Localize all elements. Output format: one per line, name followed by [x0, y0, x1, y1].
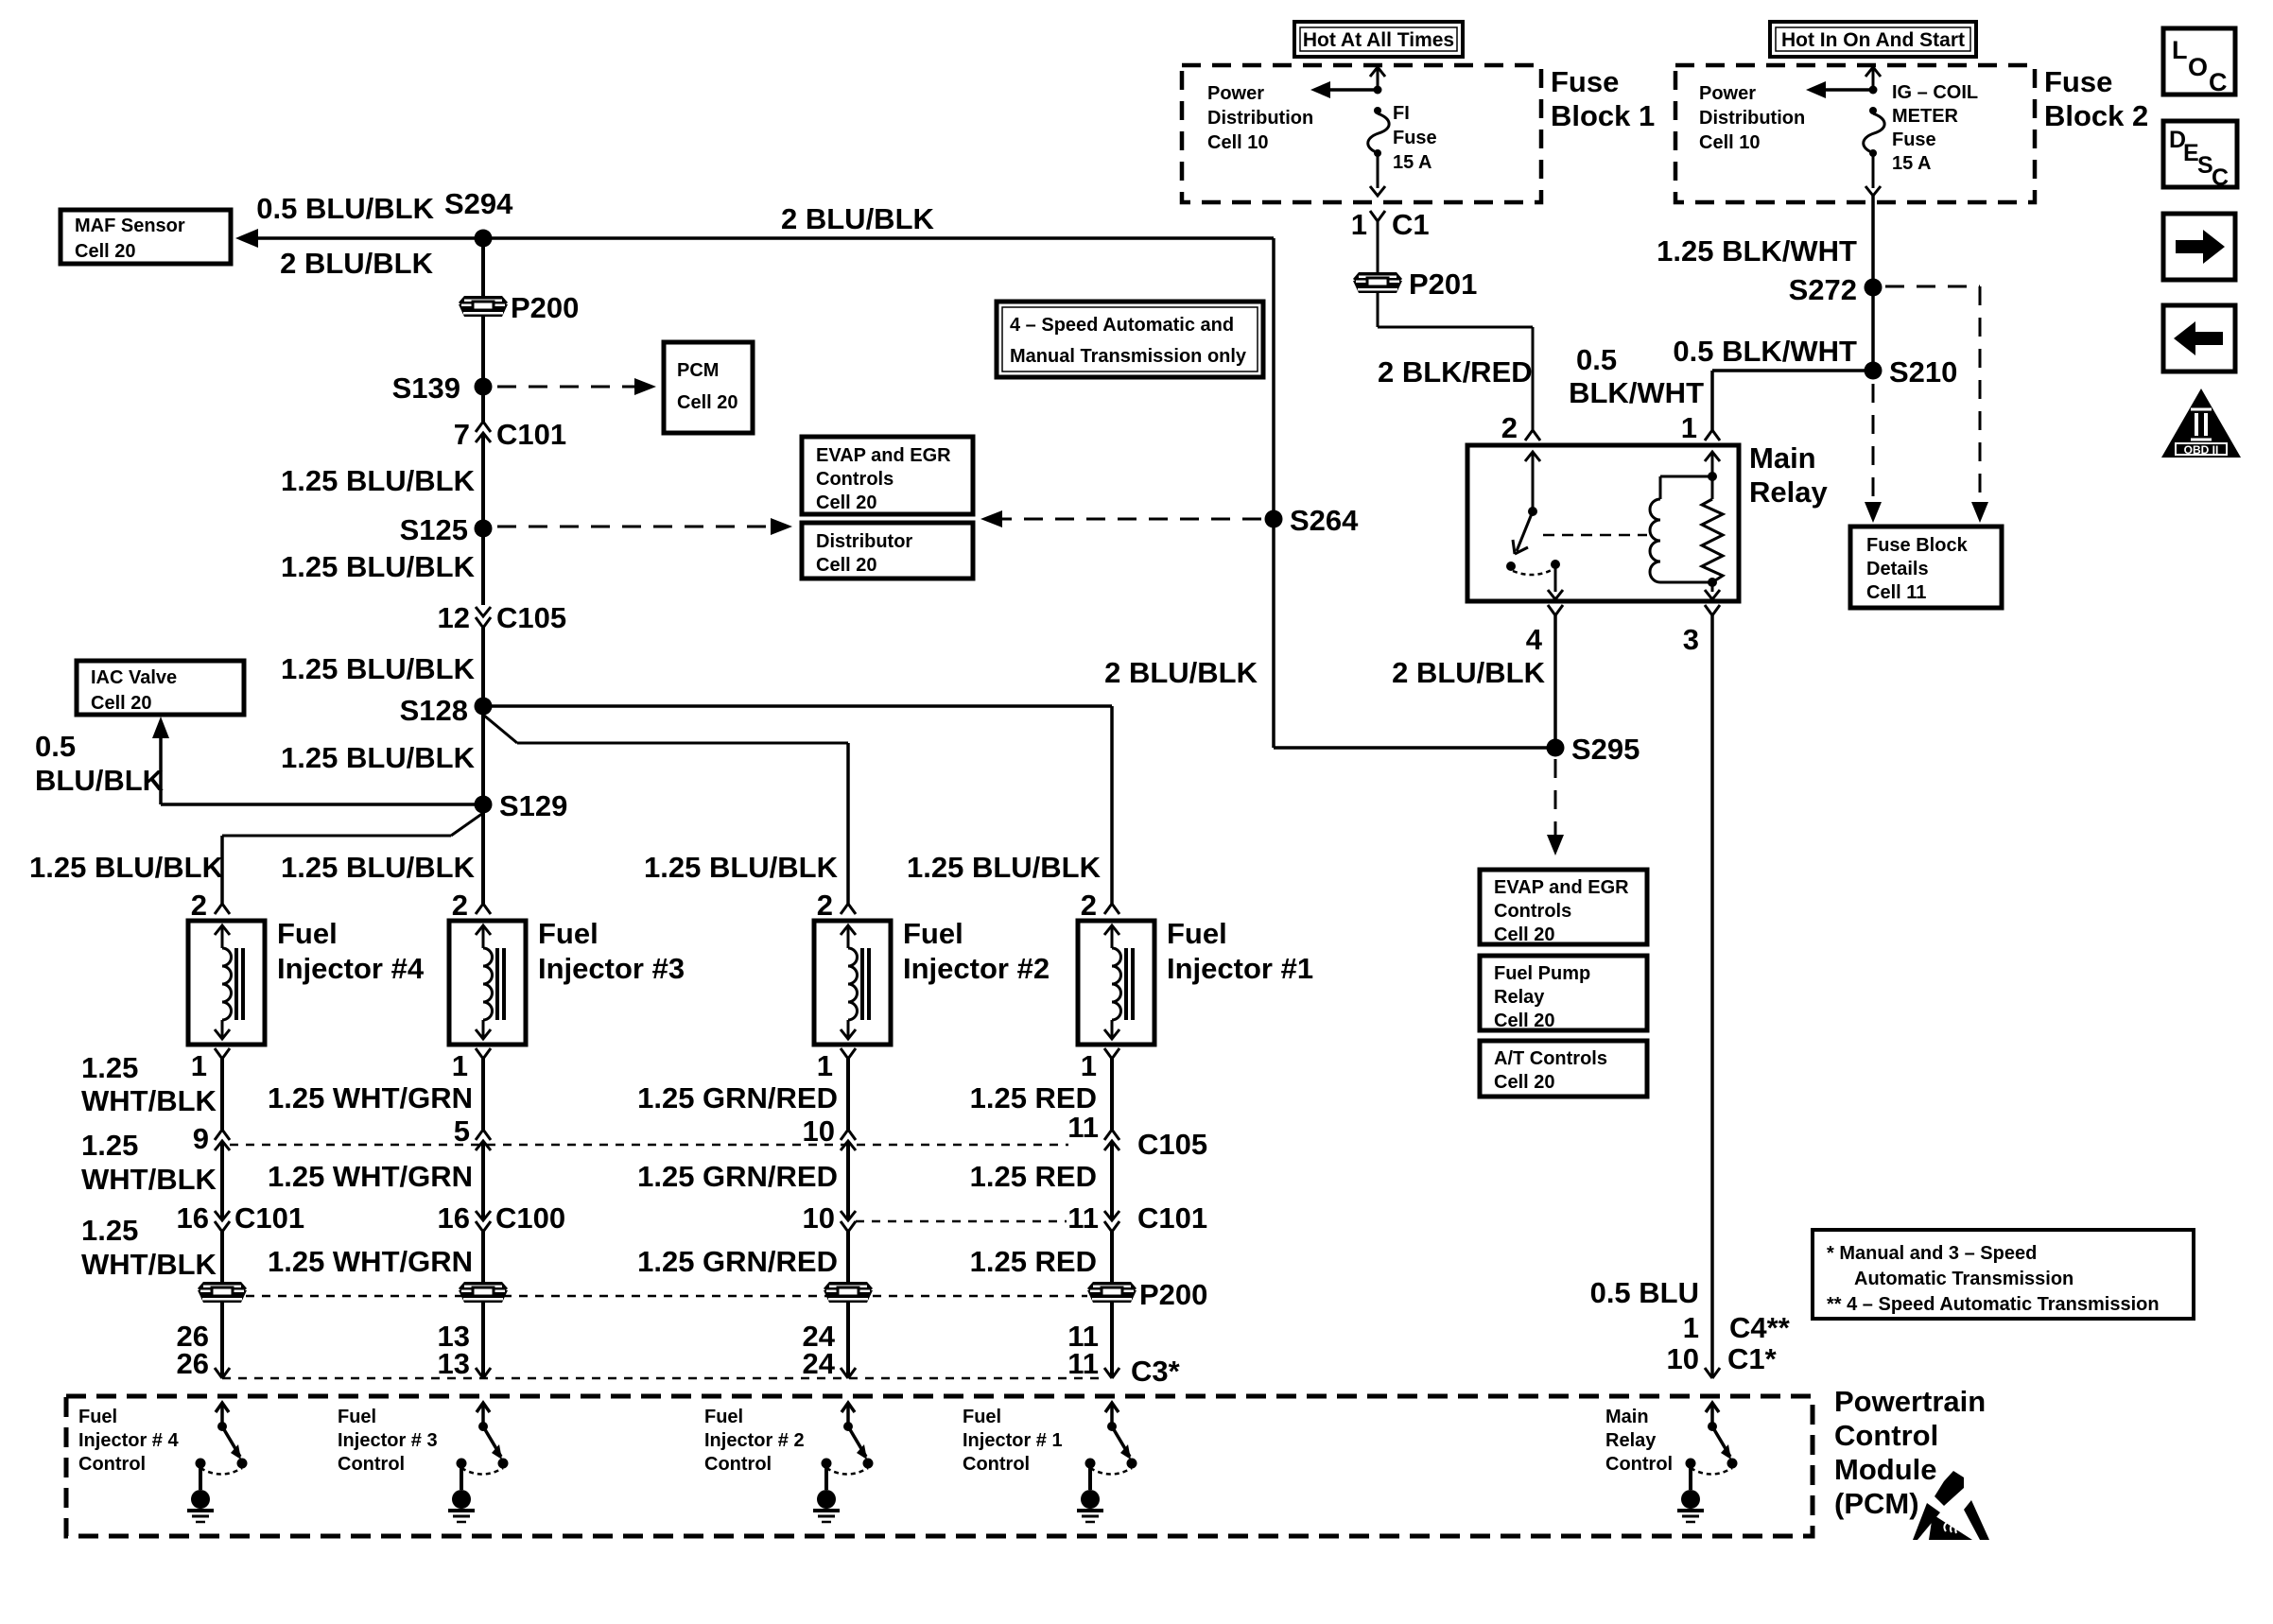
svg-text:Fuel: Fuel	[78, 1407, 117, 1427]
svg-text:Fuse: Fuse	[2044, 65, 2112, 98]
wire P201 to relay pin 2	[1378, 293, 1533, 430]
svg-text:16: 16	[177, 1201, 209, 1235]
svg-text:1.25 RED: 1.25 RED	[970, 1160, 1097, 1193]
svg-text:2 BLU/BLK: 2 BLU/BLK	[280, 247, 434, 280]
connector C101 pin 7	[454, 418, 566, 451]
svg-text:Cell 11: Cell 11	[1866, 582, 1926, 603]
svg-text:11: 11	[1067, 1201, 1099, 1235]
svg-text:Cell 20: Cell 20	[91, 693, 151, 714]
wire S294 down main column	[481, 238, 485, 422]
Powertrain Control Module label	[1834, 1385, 1986, 1520]
svg-text:WHT/BLK: WHT/BLK	[81, 1163, 217, 1196]
wire label 0.5 BLK/WHT two lines	[1569, 343, 1704, 409]
svg-text:Cell 20: Cell 20	[1494, 924, 1554, 945]
node S128	[400, 694, 493, 727]
svg-text:1.25 WHT/GRN: 1.25 WHT/GRN	[268, 1160, 473, 1193]
wire S129 diagonal to injector 4 column	[222, 813, 483, 904]
svg-text:1: 1	[1081, 1049, 1097, 1082]
relay top terminals pins 2 and 1	[1501, 411, 1720, 444]
svg-text:C105: C105	[1137, 1128, 1207, 1161]
wire S128 diagonal to injector 2 column	[483, 715, 848, 904]
svg-text:Distribution: Distribution	[1207, 108, 1313, 129]
svg-text:C101: C101	[1137, 1201, 1207, 1235]
PCM label fuel injector 4 control	[78, 1407, 179, 1475]
connector C1* pin 10	[1667, 1342, 1778, 1378]
connector P200 top	[459, 291, 579, 324]
svg-text:C1*: C1*	[1727, 1342, 1778, 1375]
svg-text:C1: C1	[1392, 208, 1430, 241]
Power Distribution Cell 10 label 2	[1699, 83, 1805, 153]
svg-text:10: 10	[803, 1201, 835, 1235]
svg-text:METER: METER	[1892, 106, 1959, 127]
svg-text:BLK/WHT: BLK/WHT	[1569, 376, 1704, 409]
svg-text:EVAP and EGR: EVAP and EGR	[1494, 877, 1629, 898]
svg-text:Cell 10: Cell 10	[1207, 132, 1268, 153]
svg-text:1.25 RED: 1.25 RED	[970, 1245, 1097, 1278]
svg-text:1: 1	[1683, 1311, 1699, 1344]
Power Distribution Cell 10 label 1	[1207, 83, 1313, 153]
svg-text:S129: S129	[499, 789, 567, 822]
svg-text:Relay: Relay	[1494, 987, 1545, 1008]
footnote box	[1813, 1230, 2194, 1319]
fuel injector 4	[188, 917, 425, 1045]
svg-text:P200: P200	[511, 291, 579, 324]
svg-text:0.5: 0.5	[1576, 343, 1617, 376]
svg-text:* Manual and 3 – Speed: * Manual and 3 – Speed	[1827, 1243, 2037, 1264]
svg-text:Control: Control	[78, 1454, 146, 1475]
svg-text:2 BLU/BLK: 2 BLU/BLK	[1392, 656, 1546, 689]
svg-text:1.25 BLU/BLK: 1.25 BLU/BLK	[644, 851, 839, 884]
dashed arrow S125 to EVAP/Distributor	[497, 518, 792, 535]
relay dashed link	[1543, 534, 1647, 537]
svg-text:Details: Details	[1866, 559, 1929, 579]
svg-text:Manual Transmission only: Manual Transmission only	[1010, 346, 1247, 367]
svg-text:C: C	[2212, 164, 2229, 191]
wires injectors down to C105 row	[222, 1059, 1112, 1130]
fuel injector 1	[1078, 917, 1313, 1045]
svg-text:Fuse: Fuse	[1892, 130, 1936, 150]
svg-text:O: O	[2188, 53, 2208, 81]
svg-text:11: 11	[1067, 1111, 1099, 1144]
fuel injector 3	[449, 917, 685, 1045]
connector row C3 dashed	[215, 1355, 1181, 1388]
svg-text:1.25 BLU/BLK: 1.25 BLU/BLK	[29, 851, 224, 884]
MAF Sensor box	[61, 210, 231, 264]
svg-text:Control: Control	[338, 1454, 405, 1475]
svg-text:1.25 BLU/BLK: 1.25 BLU/BLK	[281, 741, 476, 774]
svg-text:1.25: 1.25	[81, 1051, 138, 1084]
svg-text:15 A: 15 A	[1393, 152, 1432, 173]
relay coil-resistor connections	[1660, 472, 1717, 587]
svg-text:Power: Power	[1207, 83, 1264, 104]
svg-text:Controls: Controls	[816, 469, 894, 490]
svg-text:WHT/BLK: WHT/BLK	[81, 1084, 217, 1117]
dashed wire S210 to Fuse Block Details	[1865, 384, 1882, 523]
svg-text:Injector # 4: Injector # 4	[78, 1430, 179, 1451]
svg-text:Module: Module	[1834, 1453, 1937, 1486]
svg-text:10: 10	[1667, 1342, 1699, 1375]
svg-text:Cell 20: Cell 20	[75, 241, 135, 262]
svg-text:Control: Control	[704, 1454, 772, 1475]
svg-text:Main: Main	[1749, 441, 1816, 475]
svg-text:Powertrain: Powertrain	[1834, 1385, 1986, 1418]
svg-text:C101: C101	[496, 418, 566, 451]
Distributor box	[802, 523, 973, 579]
svg-text:1: 1	[1681, 411, 1697, 444]
svg-text:Fuel Pump: Fuel Pump	[1494, 963, 1590, 984]
svg-text:C: C	[2209, 68, 2228, 96]
svg-text:S125: S125	[400, 513, 468, 546]
svg-text:Control: Control	[1834, 1419, 1938, 1452]
svg-text:Controls: Controls	[1494, 901, 1571, 922]
svg-text:A/T Controls: A/T Controls	[1494, 1048, 1607, 1069]
svg-text:1.25: 1.25	[81, 1214, 138, 1247]
dashed arrow S295 down	[1547, 759, 1564, 855]
left arrow icon	[2163, 305, 2235, 371]
svg-text:Cell 20: Cell 20	[816, 492, 876, 513]
wire labels row2	[81, 1129, 1097, 1196]
svg-text:26: 26	[177, 1347, 209, 1380]
svg-text:1: 1	[191, 1049, 207, 1082]
Hot In On And Start box	[1770, 22, 1976, 57]
svg-text:24: 24	[803, 1347, 836, 1380]
svg-text:(PCM): (PCM)	[1834, 1487, 1919, 1520]
svg-text:BLU/BLK: BLU/BLK	[35, 764, 165, 797]
svg-text:P200: P200	[1139, 1278, 1207, 1311]
LOC icon	[2163, 28, 2235, 96]
svg-text:15 A: 15 A	[1892, 153, 1932, 174]
node S125	[400, 513, 493, 546]
svg-text:3: 3	[1683, 623, 1699, 656]
svg-text:1.25 GRN/RED: 1.25 GRN/RED	[637, 1081, 838, 1114]
svg-text:16: 16	[438, 1201, 470, 1235]
svg-text:C100: C100	[495, 1201, 565, 1235]
injector feed labels 1.25 BLU/BLK x4	[29, 851, 1102, 884]
svg-text:S272: S272	[1789, 273, 1857, 306]
relay pin1 arrow	[1705, 452, 1720, 476]
relay switch	[1506, 452, 1563, 599]
svg-text:Fuel: Fuel	[338, 1407, 376, 1427]
svg-text:L: L	[2172, 36, 2188, 64]
wire relay pin 3 down to PCM	[1710, 615, 1714, 1378]
long vertical wire from top run	[1274, 238, 1555, 748]
svg-text:1: 1	[1351, 208, 1367, 241]
svg-text:10: 10	[803, 1114, 835, 1148]
svg-text:Fuel: Fuel	[1167, 917, 1227, 950]
wire label 0.5 BLU/BLK two lines	[35, 730, 165, 797]
wire S210 to relay pin 1	[1712, 371, 1873, 430]
fuel injector 2	[814, 917, 1050, 1045]
svg-text:** 4 – Speed Automatic Transmi: ** 4 – Speed Automatic Transmission	[1827, 1294, 2160, 1315]
svg-text:5: 5	[454, 1114, 470, 1148]
svg-text:1.25 BLU/BLK: 1.25 BLU/BLK	[281, 652, 476, 685]
4-Speed note box	[997, 302, 1263, 377]
PCM pin numbers row1	[177, 1320, 1099, 1353]
svg-text:1.25 BLU/BLK: 1.25 BLU/BLK	[281, 550, 476, 583]
svg-text:C101: C101	[234, 1201, 304, 1235]
wires to P200 row	[222, 1232, 1112, 1378]
OBD II triangle icon	[2161, 389, 2241, 458]
svg-text:1: 1	[817, 1049, 833, 1082]
relay coil	[1650, 476, 1660, 582]
svg-text:EVAP and EGR: EVAP and EGR	[816, 445, 951, 466]
node S295	[1547, 733, 1640, 766]
svg-text:Cell 10: Cell 10	[1699, 132, 1760, 153]
svg-text:S139: S139	[392, 371, 460, 405]
connector row C105 dashed	[193, 1111, 1207, 1161]
wire S294 to right	[483, 236, 1274, 240]
svg-text:IAC Valve: IAC Valve	[91, 667, 177, 688]
svg-text:1.25 BLU/BLK: 1.25 BLU/BLK	[281, 851, 476, 884]
svg-text:1.25 WHT/GRN: 1.25 WHT/GRN	[268, 1245, 473, 1278]
svg-text:0.5 BLK/WHT: 0.5 BLK/WHT	[1673, 335, 1857, 368]
svg-text:Injector #3: Injector #3	[538, 952, 685, 985]
PCM switch fuel injector 2	[813, 1403, 874, 1522]
PCM switch fuel injector 4	[187, 1403, 248, 1522]
Fuse Block Details box	[1850, 527, 2002, 608]
svg-text:Cell 20: Cell 20	[1494, 1011, 1554, 1031]
injector top terminals	[215, 904, 1119, 914]
PCM pin numbers row2 with C3*	[177, 1347, 1099, 1380]
svg-text:11: 11	[1067, 1347, 1099, 1380]
ESD symbol	[1913, 1471, 1989, 1540]
Fuse Block 2 dashed box	[1675, 65, 2148, 202]
IG-COIL METER fuse with arrows	[1806, 67, 1978, 196]
connector C1 pin 1	[1351, 208, 1430, 241]
svg-text:WHT/BLK: WHT/BLK	[81, 1248, 217, 1281]
svg-text:C105: C105	[496, 601, 566, 634]
wire labels row1	[81, 1051, 1097, 1117]
DESC icon	[2163, 121, 2237, 191]
svg-text:Injector # 2: Injector # 2	[704, 1430, 805, 1451]
svg-text:1.25 GRN/RED: 1.25 GRN/RED	[637, 1245, 838, 1278]
Fuel Pump Relay box	[1480, 956, 1647, 1031]
dashed wire S272 to Fuse Block Details	[1885, 286, 1988, 523]
EVAP and EGR Controls box left	[802, 437, 973, 514]
svg-text:2: 2	[817, 889, 833, 922]
svg-text:1.25 BLU/BLK: 1.25 BLU/BLK	[907, 851, 1102, 884]
svg-text:Fuel: Fuel	[277, 917, 338, 950]
PCM label fuel injector 3 control	[338, 1407, 438, 1475]
svg-text:2 BLK/RED: 2 BLK/RED	[1378, 355, 1533, 389]
svg-text:Fuse: Fuse	[1393, 128, 1437, 148]
svg-text:7: 7	[454, 418, 470, 451]
wire fuse block 2 down	[1871, 196, 1875, 371]
svg-text:Fuse Block: Fuse Block	[1866, 535, 1969, 556]
svg-text:2: 2	[191, 889, 207, 922]
Fuse Block 1 dashed box	[1182, 65, 1655, 202]
connector row P200 dashed	[198, 1278, 1207, 1311]
PCM label fuel injector 2 control	[704, 1407, 805, 1475]
dashed arrow S139 to PCM box	[497, 378, 656, 395]
svg-text:MAF Sensor: MAF Sensor	[75, 216, 185, 236]
svg-text:1: 1	[452, 1049, 468, 1082]
svg-text:S294: S294	[444, 187, 513, 220]
svg-text:Relay: Relay	[1749, 475, 1828, 509]
svg-text:C3*: C3*	[1131, 1355, 1181, 1388]
pin 2 labels above injectors	[191, 889, 1097, 922]
svg-text:0.5: 0.5	[35, 730, 76, 763]
svg-text:Fuel: Fuel	[538, 917, 599, 950]
connector C4** pin 1	[1683, 1311, 1791, 1344]
PCM label main relay control	[1605, 1407, 1673, 1475]
wire labels row3	[81, 1214, 1097, 1281]
svg-text:Block 1: Block 1	[1551, 99, 1655, 132]
svg-text:S128: S128	[400, 694, 468, 727]
svg-text:P201: P201	[1409, 268, 1477, 301]
svg-text:S210: S210	[1889, 355, 1957, 389]
svg-text:13: 13	[438, 1347, 470, 1380]
svg-text:Cell 20: Cell 20	[1494, 1072, 1554, 1093]
Hot At All Times box	[1294, 22, 1463, 57]
connector row C101 C100	[177, 1201, 1208, 1235]
svg-text:1.25 RED: 1.25 RED	[970, 1081, 1097, 1114]
svg-text:2 BLU/BLK: 2 BLU/BLK	[1104, 656, 1258, 689]
svg-text:Injector # 3: Injector # 3	[338, 1430, 438, 1451]
wire	[481, 433, 485, 605]
svg-text:Control: Control	[963, 1454, 1030, 1475]
arrow up to IAC Valve	[152, 717, 169, 804]
svg-text:Fuse: Fuse	[1551, 65, 1619, 98]
wire C1 to P201	[1377, 221, 1379, 272]
svg-text:Injector #2: Injector #2	[903, 952, 1050, 985]
svg-text:0.5 BLU/BLK: 0.5 BLU/BLK	[256, 192, 434, 225]
svg-text:0.5 BLU: 0.5 BLU	[1590, 1276, 1699, 1309]
wires to C101 row	[222, 1141, 1112, 1220]
svg-text:4: 4	[1526, 623, 1543, 656]
svg-text:Cell 20: Cell 20	[816, 555, 876, 576]
svg-text:Distribution: Distribution	[1699, 108, 1805, 129]
svg-text:S295: S295	[1571, 733, 1640, 766]
PCM label fuel injector 1 control	[963, 1407, 1063, 1475]
right arrow icon	[2163, 214, 2235, 280]
svg-text:IG – COIL: IG – COIL	[1892, 82, 1978, 103]
svg-text:Block 2: Block 2	[2044, 99, 2148, 132]
wire	[481, 628, 485, 904]
IAC Valve box	[77, 661, 244, 715]
wire relay pin 4 to S295	[1553, 615, 1557, 748]
svg-text:Fuel: Fuel	[903, 917, 963, 950]
svg-text:Hot At All Times: Hot At All Times	[1303, 29, 1454, 51]
PCM Cell 20 box	[664, 342, 753, 433]
A/T Controls box	[1480, 1041, 1647, 1097]
svg-text:Injector #1: Injector #1	[1167, 952, 1313, 985]
svg-text:Injector # 1: Injector # 1	[963, 1430, 1063, 1451]
connector P201	[1353, 268, 1477, 301]
svg-text:Injector #4: Injector #4	[277, 952, 425, 985]
node S272	[1789, 273, 1883, 306]
relay pin3 arrow	[1705, 582, 1720, 599]
svg-text:C4**: C4**	[1729, 1311, 1791, 1344]
svg-text:9: 9	[193, 1122, 209, 1155]
svg-text:S264: S264	[1290, 504, 1359, 537]
wire to S129	[161, 803, 483, 806]
svg-text:Fuel: Fuel	[704, 1407, 743, 1427]
Powertrain Control Module dashed box	[66, 1396, 1813, 1536]
svg-text:Distributor: Distributor	[816, 531, 912, 552]
svg-text:OBD II: OBD II	[2184, 443, 2219, 457]
svg-text:2: 2	[452, 889, 468, 922]
svg-text:Control: Control	[1605, 1454, 1673, 1475]
Main Relay box	[1467, 441, 1828, 601]
PCM switch fuel injector 3	[448, 1403, 509, 1522]
wire S128 to injector 1 column	[483, 706, 1112, 904]
svg-text:Cell 20: Cell 20	[677, 392, 737, 413]
PCM switch fuel injector 1	[1077, 1403, 1137, 1522]
node S139	[392, 371, 493, 405]
EVAP and EGR Controls box mid	[1480, 870, 1647, 945]
svg-text:FI: FI	[1393, 103, 1410, 124]
svg-text:1.25 BLU/BLK: 1.25 BLU/BLK	[281, 464, 476, 497]
svg-text:1.25 BLK/WHT: 1.25 BLK/WHT	[1657, 234, 1857, 268]
svg-text:1.25 WHT/GRN: 1.25 WHT/GRN	[268, 1081, 473, 1114]
svg-text:PCM: PCM	[677, 360, 719, 381]
FI fuse with arrows	[1310, 67, 1437, 196]
svg-text:Power: Power	[1699, 83, 1756, 104]
svg-text:Fuel: Fuel	[963, 1407, 1001, 1427]
svg-text:2: 2	[1081, 889, 1097, 922]
node S210	[1865, 355, 1958, 389]
dashed arrow S264 to boxes	[980, 510, 1261, 527]
svg-text:Hot In On And Start: Hot In On And Start	[1781, 29, 1965, 51]
svg-text:1.25 GRN/RED: 1.25 GRN/RED	[637, 1160, 838, 1193]
svg-text:4 – Speed Automatic and: 4 – Speed Automatic and	[1010, 315, 1234, 336]
node S264	[1265, 504, 1360, 537]
svg-text:Relay: Relay	[1605, 1430, 1657, 1451]
svg-text:Main: Main	[1605, 1407, 1649, 1427]
wire to MAF with arrow	[235, 229, 483, 248]
relay resistor	[1702, 476, 1723, 582]
node S294	[444, 187, 513, 248]
svg-text:1.25: 1.25	[81, 1129, 138, 1162]
svg-text:12: 12	[438, 601, 470, 634]
svg-text:Automatic Transmission: Automatic Transmission	[1854, 1269, 2073, 1289]
relay bottom terminals pins 4 and 3	[1526, 605, 1720, 656]
PCM switch main relay	[1677, 1403, 1738, 1522]
svg-text:2: 2	[1501, 411, 1518, 444]
connector C105 pin 12	[438, 601, 567, 634]
svg-text:2 BLU/BLK: 2 BLU/BLK	[781, 202, 935, 235]
injector bottom terminals pin 1	[191, 1048, 1119, 1082]
node S129	[475, 789, 568, 822]
